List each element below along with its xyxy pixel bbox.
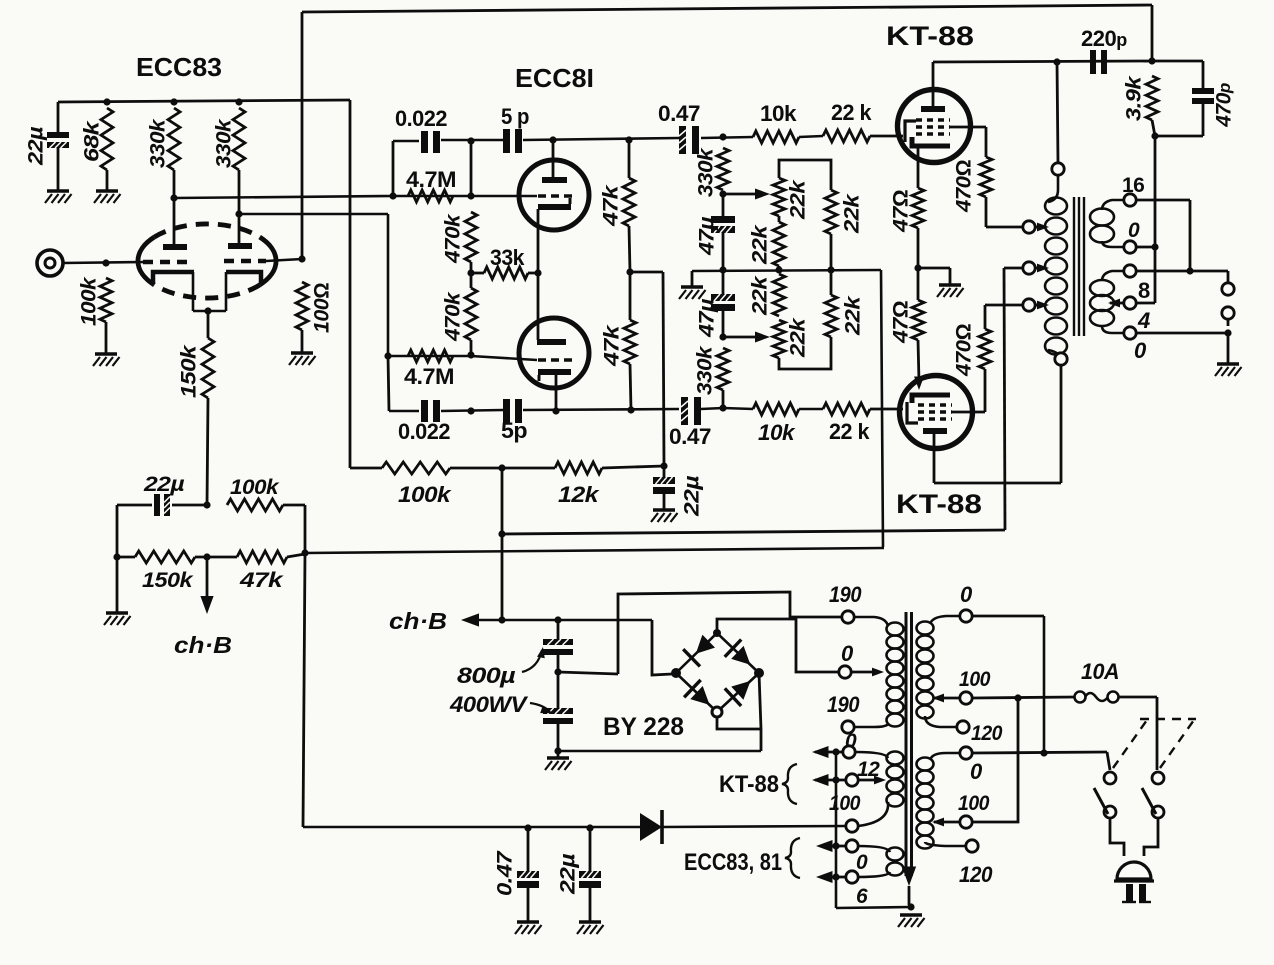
node row1 anode tap: [549, 136, 556, 143]
svg-text:100: 100: [958, 792, 990, 815]
node feedback top: [1148, 57, 1155, 64]
wire top feedback bus: [302, 5, 1152, 61]
wire pot2 arrow line: [723, 336, 758, 339]
resistor R 470k upper: [465, 212, 477, 262]
svg-text:ch·B: ch·B: [174, 632, 232, 658]
transformer OPT secondary upper winding: [1090, 209, 1114, 243]
resistor R 330k b: [233, 108, 245, 170]
label KT-88 lower: [896, 489, 982, 519]
ground speaker: [1215, 364, 1242, 376]
svg-text:22 k: 22 k: [829, 419, 870, 444]
label ECC83,81 brace: [684, 838, 800, 878]
tube KT88 upper anode lead: [932, 62, 935, 107]
label 150k fb: [142, 569, 194, 592]
plug mains: [1114, 862, 1154, 902]
resistor R 3.9k: [1146, 76, 1158, 120]
wire 16 to fb: [1136, 199, 1190, 202]
wire UL tap lower: [1035, 304, 1040, 307]
wire OPT top lead: [1057, 62, 1058, 163]
node caps bottom: [554, 747, 561, 754]
terminal 100 primary lower: [960, 816, 972, 828]
wire 470k to 33k: [470, 262, 473, 273]
wire plug right: [1144, 818, 1158, 856]
wire pot1 arrow line: [723, 193, 758, 196]
svg-text:100k: 100k: [78, 276, 101, 326]
svg-text:190: 190: [829, 582, 862, 607]
node bias cap2: [586, 824, 593, 831]
arrow 0 HV tap: [872, 668, 884, 677]
ground 22u: [45, 191, 72, 203]
label 0.022 upper: [395, 106, 447, 131]
node row2 cathode tap: [552, 407, 559, 414]
tube ECC81 lower anode plate: [537, 339, 566, 345]
node bridge top: [713, 629, 721, 637]
arrow KT88 lower cathode: [914, 377, 924, 391]
svg-text:22k: 22k: [841, 193, 864, 234]
svg-text:470k: 470k: [442, 291, 465, 342]
transformer OPT secondary upper exit: [1102, 241, 1124, 247]
svg-text:22µ: 22µ: [143, 473, 185, 496]
wire 47ohm lower legs: [918, 268, 919, 382]
svg-text:0: 0: [970, 759, 983, 784]
resistor R 22k pot upper: [773, 178, 785, 216]
wire 470k upper leg: [470, 141, 473, 196]
tube KT88 upper envelope: [898, 90, 971, 163]
label 120 primary lower: [959, 862, 993, 887]
svg-text:3.9k: 3.9k: [1123, 75, 1146, 121]
wire 470k lower legs: [470, 273, 473, 355]
input jack: [37, 250, 63, 276]
arrow pot2 wiper: [755, 332, 770, 343]
label 4.7M lower: [404, 364, 454, 389]
svg-text:0.47: 0.47: [658, 101, 700, 126]
transformer OPT primary top entry: [1048, 163, 1064, 202]
wire bridge gnd row: [558, 750, 761, 753]
capacitor C 800u lower: [543, 708, 573, 724]
node cap1 top: [554, 616, 561, 623]
node fuse junction: [1014, 694, 1021, 701]
terminal 190 lower: [842, 721, 854, 733]
tube ECC81 upper anode plate: [542, 177, 567, 183]
wire switch left feed: [1107, 752, 1110, 770]
label 470k upper: [442, 213, 465, 264]
resistor R 22k gridstop upper: [823, 130, 870, 142]
node NFB row left: [301, 549, 308, 556]
svg-text:120: 120: [959, 862, 993, 887]
svg-text:100: 100: [829, 792, 861, 815]
wire 33k right: [528, 272, 538, 275]
wire 8 tap: [1110, 302, 1124, 305]
resistor R 100k supply: [382, 462, 450, 474]
tube ECC83 cathode2: [226, 272, 261, 311]
node chB tap: [203, 553, 210, 560]
resistor R 10k upper: [753, 131, 799, 143]
terminal 6 ECC heater: [846, 871, 858, 883]
terminal 100 primary upper: [960, 692, 972, 704]
wire heater bus: [835, 752, 838, 908]
node grid row 470k: [467, 192, 474, 199]
arrow 100B tap: [932, 818, 944, 827]
tube ECC83 anode1 plate: [163, 244, 187, 250]
label chB upper: [174, 632, 232, 658]
svg-text:220p: 220p: [1081, 26, 1127, 51]
wire 0.022 left leg: [392, 141, 395, 196]
svg-text:0.47: 0.47: [669, 424, 711, 449]
wire fuse to switch: [1118, 697, 1157, 770]
wire KT88 lower screen: [952, 369, 985, 412]
svg-text:22µ: 22µ: [25, 127, 48, 167]
node OPT primary top tap: [1053, 58, 1060, 65]
tube KT88 lower grid bracket: [907, 402, 918, 423]
svg-text:KT-88: KT-88: [886, 21, 974, 51]
resistor R 22k pot lower: [773, 320, 785, 358]
resistor R 12k supply: [555, 462, 602, 474]
node heater bus 0KT: [832, 748, 839, 755]
terminal 0 ECC heater: [846, 840, 858, 852]
svg-text:10A: 10A: [1081, 659, 1119, 684]
label 12: [857, 758, 880, 781]
svg-text:4: 4: [1137, 308, 1150, 333]
capacitor C 22u ECC81: [653, 466, 675, 494]
node 150k-22u junction: [203, 501, 210, 508]
svg-text:100k: 100k: [230, 476, 280, 499]
svg-text:47µ: 47µ: [696, 299, 719, 339]
node 47k1 top: [625, 136, 632, 143]
terminal OPT CT: [1023, 262, 1035, 274]
label 4: [1137, 308, 1150, 333]
arrow 12 tap: [874, 776, 886, 785]
capacitor C 5p lower: [503, 399, 522, 423]
label 0 ECC heater: [856, 851, 868, 874]
resistor R 470ohm lower: [979, 329, 991, 369]
ground 68k: [94, 191, 121, 203]
svg-text:0: 0: [1128, 219, 1140, 242]
wire 0B out: [972, 752, 1107, 753]
svg-text:22k: 22k: [749, 224, 772, 265]
label 10k lower: [758, 420, 796, 445]
wire OPT bottom lead: [1060, 365, 1063, 483]
wire pot top loop: [779, 160, 831, 190]
terminal bridge bottom: [712, 707, 722, 717]
label 22k lower mid: [749, 275, 772, 316]
svg-text:47Ω: 47Ω: [890, 301, 913, 345]
label 10A: [1081, 659, 1119, 684]
label 3.9k: [1123, 75, 1146, 121]
svg-text:150k: 150k: [142, 569, 194, 592]
tube KT88 upper anode plate: [921, 106, 945, 112]
fuse 10A: [1075, 692, 1119, 703]
wire 12k right: [602, 466, 664, 468]
wire 22k right mid: [830, 234, 833, 270]
label 190 upper: [829, 582, 862, 607]
ground PT: [898, 915, 925, 927]
terminal OPT UL tap lower: [1023, 299, 1035, 311]
wire 100k to ground: [105, 322, 108, 354]
node 68k top: [103, 98, 110, 105]
tube ECC83 envelope top dashed: [154, 224, 260, 237]
wire 100A tap: [934, 697, 960, 700]
svg-text:47k: 47k: [239, 569, 285, 592]
label 0.47 upper: [658, 101, 700, 126]
wire KT88 upper cathode lead: [917, 148, 920, 188]
wire 0.47 bias gnd: [527, 888, 530, 922]
ground caps: [545, 751, 572, 770]
wire B+ to CT: [1004, 267, 1023, 270]
node balance upper: [719, 190, 726, 197]
tube KT88 upper grids: [916, 120, 950, 134]
wire 800u lower legs: [557, 672, 560, 751]
transformer PT core: [906, 612, 912, 876]
wire grid2 to NFB node: [266, 259, 302, 261]
wire ECC83 B+ row: [58, 100, 350, 102]
transformer PT HV entry: [854, 617, 888, 626]
terminal 120 primary upper: [957, 721, 969, 733]
wire 470p top lead: [1202, 61, 1205, 88]
terminal OPT UL tap upper: [1023, 221, 1035, 233]
wire bias to 100 tap: [662, 826, 846, 827]
svg-text:BY 228: BY 228: [603, 713, 684, 741]
resistor R 10k lower: [753, 403, 799, 415]
wire 100k-12k: [450, 467, 555, 470]
svg-text:100Ω: 100Ω: [311, 283, 334, 333]
terminal 0 primary lower: [960, 747, 972, 759]
wire 3.9k bottom row: [1152, 120, 1203, 136]
arrow 8 tap: [1108, 299, 1120, 308]
svg-text:KT-88: KT-88: [719, 771, 779, 798]
wire 470ohm upper to tap: [986, 197, 1023, 227]
label ECC81: [515, 63, 594, 93]
wire 0 ECC heater: [820, 845, 846, 848]
wire UL tap upper: [1035, 226, 1040, 229]
arrow 800u pointer: [522, 647, 545, 672]
wire B+ feed column: [349, 100, 352, 468]
node grid input: [102, 259, 109, 266]
label 22u ECC81: [681, 476, 704, 518]
transformer OPT secondary lower exit: [1102, 326, 1124, 333]
node ECC81 B+ node: [660, 462, 667, 469]
tube ECC83 anode2 lead: [238, 214, 241, 243]
arrow 100A tap: [932, 694, 944, 703]
arrow pot1 wiper: [755, 189, 770, 200]
svg-text:ECC8I: ECC8I: [515, 63, 594, 93]
node caps midpoint: [554, 668, 561, 675]
svg-text:47k: 47k: [601, 324, 624, 367]
capacitor C 47u lower: [711, 294, 735, 311]
svg-text:22 k: 22 k: [831, 100, 872, 125]
label 100 heater: [829, 792, 861, 815]
wire 22u row: [117, 504, 207, 507]
label 47k lower: [601, 324, 624, 367]
label 120 primary upper: [971, 722, 1003, 745]
wire fb drop: [1189, 200, 1192, 271]
transformer PT primA exit: [925, 716, 957, 727]
wire 12 tap: [858, 779, 877, 782]
transformer OPT secondary lower entry: [1102, 271, 1124, 281]
wire 6 ECC heater: [820, 876, 846, 879]
resistor R 47ohm upper: [912, 188, 924, 228]
resistor R 68k: [101, 108, 113, 170]
node 4.7M2 left: [384, 352, 391, 359]
terminal 120 primary lower: [966, 840, 978, 852]
label 47ohm lower: [890, 301, 913, 345]
resistor R 22k lower mid: [773, 274, 785, 316]
node speaker gnd: [1224, 329, 1231, 336]
svg-text:4.7M: 4.7M: [404, 364, 454, 389]
svg-text:22k: 22k: [749, 275, 772, 316]
node anode1: [170, 194, 177, 201]
resistor R 33k: [471, 267, 528, 279]
node B+ rail tap: [498, 530, 505, 537]
node row2-470k: [467, 407, 474, 414]
wire 330k b to anode: [238, 170, 241, 214]
wire cathode join: [193, 310, 226, 313]
wire 470p bottom lead: [1202, 104, 1205, 136]
resistor R 470ohm upper: [980, 157, 992, 197]
label 22k gridstop lower: [829, 419, 870, 444]
node cathode junction: [204, 307, 211, 314]
wire cathode down: [207, 311, 210, 338]
label chB lower: [389, 608, 447, 634]
label 100k fb: [230, 476, 280, 499]
node fb-8ohm join: [1186, 267, 1193, 274]
node bridge right: [754, 668, 764, 678]
capacitor 22u cathode: [154, 494, 170, 516]
ground KT88 cathodes: [937, 285, 964, 297]
wire 150k row: [195, 556, 237, 559]
svg-text:ECC83: ECC83: [136, 52, 222, 82]
wire ECC81 lower cathode down: [555, 375, 558, 411]
label 6: [856, 885, 868, 908]
resistor R 4.7M upper: [408, 190, 453, 202]
arrow 12 heater: [812, 774, 829, 786]
resistor R 47k lower: [624, 320, 636, 364]
wire row1: [393, 136, 823, 141]
wire 100k fb right: [283, 504, 305, 507]
node 330k-a top: [170, 98, 177, 105]
svg-text:6: 6: [856, 885, 868, 908]
resistor R 330k a: [168, 108, 180, 170]
wire 12 heater: [815, 779, 846, 782]
resistor R 150k cathode: [202, 338, 214, 398]
wire A0 drop: [1043, 616, 1046, 753]
wire 100ohm to ground: [301, 330, 304, 353]
label 5p upper: [501, 104, 529, 129]
node row2 330k: [719, 404, 726, 411]
wire CT tap: [1035, 267, 1040, 270]
capacitor C 0.022 lower: [421, 400, 440, 422]
svg-text:400WV: 400WV: [449, 692, 529, 717]
wire 330k lower leg: [722, 390, 725, 408]
label 0.022 lower: [398, 419, 450, 444]
transformer PT KT entry: [855, 752, 888, 758]
node bus pot: [775, 266, 782, 273]
label 47k fb: [239, 569, 285, 592]
wire 0 KT heater: [815, 751, 843, 754]
capacitor C 220p: [1090, 50, 1107, 74]
wire B+ down: [501, 468, 504, 534]
label 12k supply: [558, 482, 601, 507]
node row1-470k: [467, 137, 474, 144]
node 150k leg: [113, 553, 120, 560]
tube KT88 upper cathode: [912, 137, 950, 146]
tube KT88 lower anode plate: [923, 428, 947, 434]
wire B+ rail up: [1004, 268, 1005, 530]
label 22k gridstop upper: [831, 100, 872, 125]
wire 47k2 legs: [630, 272, 631, 410]
label 0 sec upper: [1128, 219, 1140, 242]
wire plug left: [1110, 818, 1124, 856]
tube ECC83 grid2 dashes: [224, 259, 266, 264]
wire KT88 upper screen: [950, 127, 986, 157]
svg-text:800µ: 800µ: [457, 663, 516, 688]
svg-text:120: 120: [971, 722, 1003, 745]
wire 47k1 top: [628, 140, 631, 178]
node 47k2 bottom: [627, 406, 634, 413]
transformer PT HV exit: [854, 724, 888, 727]
capacitor C 470p: [1192, 88, 1214, 104]
terminal 0 KT heater: [843, 746, 855, 758]
label 0 primary upper: [960, 582, 973, 607]
node bus right: [827, 266, 834, 273]
node 4.7M left: [389, 192, 396, 199]
tube ECC81 upper anode lead: [552, 140, 555, 177]
wire row2: [389, 408, 823, 411]
resistor R 470k lower: [465, 288, 477, 340]
node grid row2 470k: [467, 351, 474, 358]
node anode2: [235, 210, 242, 217]
tube ECC81 upper cathode: [538, 198, 571, 210]
svg-text:10k: 10k: [758, 420, 796, 445]
resistor R 22k right lower: [825, 295, 837, 337]
node direct coupling: [534, 269, 541, 276]
wire bridge bottom out: [717, 717, 761, 729]
node 47k junction: [626, 268, 633, 275]
tube ECC81 lower envelope: [519, 318, 589, 388]
capacitor 22u supply: [47, 132, 69, 148]
transformer PT primA winding: [917, 622, 934, 719]
wire 22u ECC81 leg: [663, 494, 666, 510]
label 0 HV: [841, 641, 854, 666]
wire 0.022 lower leg: [388, 356, 389, 411]
tube ECC81 lower grid dashes: [538, 358, 572, 362]
label 220p: [1081, 26, 1127, 51]
svg-text:470Ω: 470Ω: [953, 160, 976, 213]
svg-text:ECC83, 81: ECC83, 81: [684, 849, 782, 876]
label 22u cathode: [143, 473, 185, 496]
svg-text:330k: 330k: [147, 118, 170, 168]
wire 0 lower row: [1136, 332, 1228, 335]
wire 47ohm junction: [917, 228, 920, 268]
node 0-fb junction: [1151, 243, 1158, 250]
svg-text:47k: 47k: [600, 184, 623, 227]
diode bridge D1: [676, 633, 717, 673]
svg-text:22k: 22k: [842, 295, 865, 336]
label 190 lower: [827, 692, 860, 717]
label 800u: [457, 663, 516, 688]
wire 47k to node: [287, 554, 305, 557]
terminal speaker cold: [1222, 307, 1234, 319]
capacitor C 0.47 lower: [681, 397, 701, 425]
wire bias row: [303, 826, 640, 829]
wire KT88 plate row: [933, 61, 1152, 62]
tube KT88 lower cathode: [912, 395, 950, 403]
svg-text:68k: 68k: [81, 120, 104, 162]
ground 150k-22u leg: [104, 557, 131, 625]
wire anode2 row: [239, 214, 388, 356]
wire 100k to corner: [304, 505, 307, 553]
label 22k upper mid: [749, 224, 772, 265]
resistor R 330k lower: [717, 348, 729, 390]
